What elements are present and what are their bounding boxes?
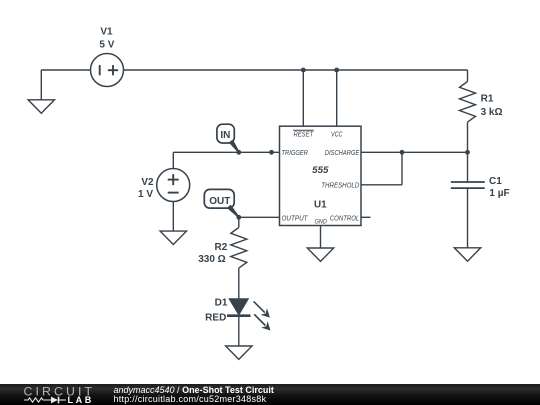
node junction IN flag [236,150,241,155]
svg-text:TRIGGER: TRIGGER [282,150,309,157]
svg-text:LAB: LAB [68,395,94,405]
svg-text:OUT: OUT [209,196,230,207]
svg-text:3 kΩ: 3 kΩ [481,107,503,118]
wire RESET pin [302,70,304,126]
node junction RESET rail [301,68,306,73]
svg-text:D1: D1 [215,297,228,308]
svg-text:555: 555 [312,165,329,176]
label D1 value [205,297,228,323]
svg-text:R1: R1 [481,94,494,105]
ground (D1) [226,346,252,359]
node flag OUT [204,189,239,217]
svg-text:R2: R2 [215,242,228,253]
label V2 value [138,177,154,200]
ground (C1) [454,248,480,261]
footer bar [0,384,540,405]
svg-text:GND: GND [314,219,327,226]
svg-text:OUTPUT: OUTPUT [282,216,309,223]
node junction trigger pin [269,150,274,155]
LED arrow 2 [254,314,270,330]
ground (U1 GND) [307,248,333,261]
wire D1 bottom lead [238,317,240,346]
label C1 value [489,176,510,199]
label V1 value [99,27,114,51]
label R1 value [481,94,503,118]
wire down to ground [40,70,42,100]
wire DISCHARGE net [361,151,468,153]
ground (V1) [28,100,54,113]
wire output net [239,216,280,218]
svg-text:DISCHARGE: DISCHARGE [325,150,360,157]
svg-text:5 V: 5 V [99,39,114,50]
node flag IN [217,124,240,153]
diode D1 LED [227,299,251,316]
svg-text:VCC: VCC [331,131,343,138]
wire CONTROL stub [361,216,371,218]
wire C1 bottom lead [467,189,469,248]
voltage source V2 [157,169,190,202]
pin label RESET with overline [293,130,313,138]
wire V2 top lead [172,152,174,168]
LED arrow 1 [254,301,270,317]
voltage source V1 [91,54,124,87]
wire V1 left lead [41,69,91,71]
wire trigger net [173,151,279,153]
wire R1 top lead [467,70,469,82]
svg-text:1 µF: 1 µF [489,188,509,199]
node junction VCC rail [334,68,339,73]
svg-text:IN: IN [220,130,230,141]
resistor R2 [231,228,247,269]
svg-text:U1: U1 [314,200,327,211]
svg-text:C1: C1 [489,176,502,187]
node junction discharge/threshold [400,150,405,155]
wire top rail [124,69,468,71]
svg-text:V1: V1 [100,27,113,38]
wire R1 bottom lead [467,122,469,152]
wire C1 top lead [467,152,469,181]
node junction discharge/R1/C1 [465,150,470,155]
wire threshold vertical [401,152,403,185]
wire threshold horizontal [361,184,402,186]
ground (V2) [160,231,186,244]
wire V2 bottom lead [172,202,174,232]
capacitor C1 [451,182,485,188]
wire R2 top lead [238,217,240,227]
wire IC gnd lead [320,226,322,249]
svg-text:1 V: 1 V [138,189,153,200]
label R2 value [198,242,228,265]
wire R2 bottom lead [238,268,240,299]
svg-text:RED: RED [205,313,226,324]
svg-text:V2: V2 [141,177,154,188]
svg-text:RESET: RESET [294,131,314,138]
caption text [114,386,274,404]
wire VCC pin [336,70,338,126]
CircuitLab logo [0,384,110,405]
node junction OUT/R2 [236,215,241,220]
resistor R1 [460,82,476,123]
svg-text:CONTROL: CONTROL [330,216,360,223]
svg-text:THRESHOLD: THRESHOLD [321,182,359,189]
svg-text:330 Ω: 330 Ω [198,254,225,265]
op-amp U1 555 timer box [280,126,362,225]
